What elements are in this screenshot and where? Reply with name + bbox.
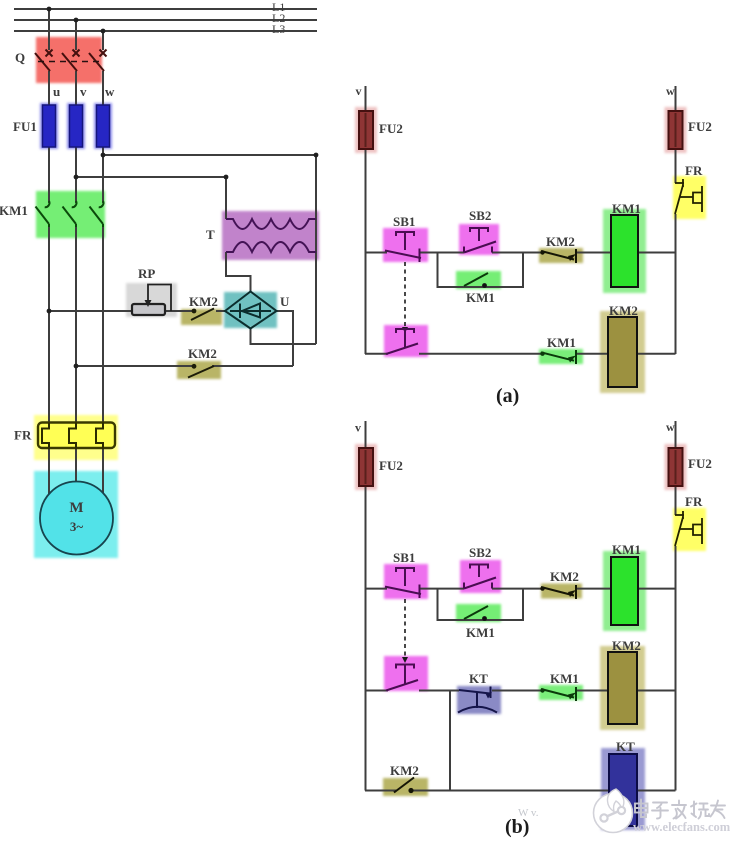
svg-text:FU2: FU2	[379, 458, 403, 473]
svg-text:KM2: KM2	[609, 303, 638, 318]
svg-text:FR: FR	[14, 428, 32, 443]
svg-text:KM1: KM1	[466, 290, 495, 305]
svg-text:U: U	[280, 294, 290, 309]
svg-text:SB1: SB1	[393, 214, 415, 229]
svg-text:T: T	[206, 227, 215, 242]
svg-text:(b): (b)	[505, 816, 529, 838]
svg-text:w: w	[105, 84, 115, 99]
svg-text:3~: 3~	[70, 519, 84, 534]
svg-text:(a): (a)	[496, 385, 519, 407]
svg-text:FU2: FU2	[688, 119, 712, 134]
svg-text:FU2: FU2	[688, 456, 712, 471]
svg-text:u: u	[53, 84, 60, 99]
svg-text:FU2: FU2	[379, 121, 403, 136]
svg-text:www.elecfans.com: www.elecfans.com	[633, 820, 731, 834]
svg-text:v: v	[356, 84, 362, 98]
svg-text:SB2: SB2	[469, 208, 491, 223]
svg-text:KM2: KM2	[188, 346, 217, 361]
svg-text:w: w	[666, 420, 675, 434]
svg-text:W v.: W v.	[518, 807, 539, 819]
svg-text:KM1: KM1	[466, 625, 495, 640]
svg-text:FR: FR	[685, 494, 703, 509]
svg-text:w: w	[666, 84, 675, 98]
svg-text:KM2: KM2	[612, 638, 641, 653]
svg-text:KM2: KM2	[390, 763, 419, 778]
svg-text:KM1: KM1	[612, 542, 641, 557]
svg-text:M: M	[69, 500, 83, 516]
svg-text:KM2: KM2	[189, 294, 218, 309]
svg-text:KM1: KM1	[612, 201, 641, 216]
svg-text:L3: L3	[272, 22, 285, 36]
svg-text:KM1: KM1	[547, 335, 576, 350]
svg-text:SB2: SB2	[469, 545, 491, 560]
svg-text:RP: RP	[138, 266, 155, 281]
svg-text:KM1: KM1	[550, 671, 579, 686]
svg-text:KM1: KM1	[0, 203, 28, 218]
svg-text:KM2: KM2	[550, 569, 579, 584]
svg-text:KT: KT	[616, 739, 635, 754]
svg-text:FR: FR	[685, 163, 703, 178]
svg-text:KT: KT	[469, 671, 488, 686]
svg-text:FU1: FU1	[13, 119, 37, 134]
svg-text:Q: Q	[15, 50, 25, 65]
svg-text:v: v	[80, 84, 87, 99]
svg-text:v: v	[355, 421, 361, 435]
svg-text:SB1: SB1	[393, 550, 415, 565]
svg-text:KM2: KM2	[546, 234, 575, 249]
